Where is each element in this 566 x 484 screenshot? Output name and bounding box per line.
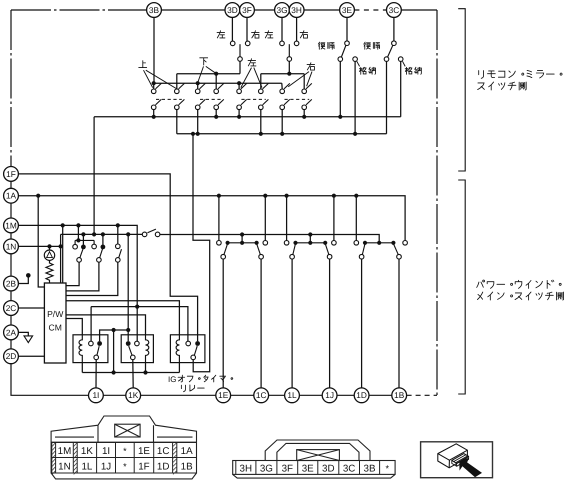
- mechanical link dashed: [200, 98, 221, 100]
- wire 3D to contact: [231, 17, 233, 41]
- wire Lm2 descender to PW CM: [60, 234, 62, 283]
- rocker2 bridge right: [323, 241, 327, 245]
- relay3 common contact: [191, 355, 196, 360]
- wire gridC to PW CM: [66, 262, 118, 295]
- rocker3 right fixed contact: [403, 241, 408, 246]
- wire gridA to PW CM: [66, 262, 79, 285]
- gridB open contact: [92, 244, 97, 249]
- ground triangle 2A: [24, 336, 33, 343]
- connector pin 1B: [392, 388, 407, 403]
- rocker3 right arm: [393, 244, 398, 255]
- wire 3C to right boundary: [401, 9, 437, 11]
- boundary through left connectors to bottom row: [11, 167, 89, 396]
- junction 1A branch: [36, 194, 40, 198]
- contact 3H: [294, 41, 299, 46]
- rocker1 bridge: [228, 242, 257, 244]
- pole1 upper arm: [156, 83, 162, 89]
- connector pin 1M: [4, 218, 19, 233]
- svg-text:3H: 3H: [240, 463, 253, 474]
- connector pin 3D: [225, 3, 240, 18]
- connector pin 1I: [89, 388, 104, 403]
- pole6 lower arm: [263, 99, 269, 105]
- wire relay2 common to 1K: [132, 360, 134, 388]
- label remote control mirror line1: [479, 70, 562, 78]
- label up: [139, 61, 147, 68]
- switch arm 3E: [341, 45, 346, 57]
- mirror switch pole5 lower contact: [237, 105, 242, 110]
- rocker2 bridge center: [308, 241, 312, 245]
- rocker2 left moving contact: [290, 254, 295, 259]
- connector pin 3H: [289, 3, 304, 18]
- relay 3 IG off timer relay: [170, 335, 205, 363]
- junction grid bar: [76, 238, 80, 242]
- label return 2: [364, 42, 380, 49]
- svg-text:3F: 3F: [282, 463, 293, 474]
- relay3 arm: [194, 346, 197, 355]
- bracket power window main switch side: [458, 180, 465, 394]
- wire 2A to ground: [18, 332, 28, 336]
- contact kakunou (retract) 1: [353, 57, 358, 62]
- wire 1N bus: [18, 245, 60, 247]
- pole7 lower contact wire: [281, 110, 283, 134]
- bracket remote mirror switch side: [458, 9, 465, 171]
- wire rocker contact to pin 1D: [361, 259, 363, 388]
- wire bus2 down to IG relay common: [193, 134, 210, 372]
- svg-text:1L: 1L: [81, 461, 92, 472]
- relay1 coil: [79, 335, 82, 363]
- label retract 1: [359, 67, 375, 74]
- svg-text:3B: 3B: [364, 463, 376, 474]
- relay 2 (window down): [121, 335, 153, 363]
- relay1 common contact: [94, 355, 99, 360]
- svg-text:1B: 1B: [394, 390, 405, 400]
- gridA open contact: [73, 244, 78, 249]
- junction 1N Lm2 descender: [59, 244, 63, 248]
- wire rocker contact to pin 1C: [260, 259, 262, 388]
- leader retract 1: [357, 61, 360, 66]
- contact 3G: [280, 41, 285, 46]
- svg-text:2D: 2D: [6, 351, 17, 361]
- rocker1 left fixed contact: [217, 241, 222, 246]
- mirror switch pole4 lower contact: [214, 105, 219, 110]
- wire CM to relay2 coil: [66, 315, 146, 335]
- mirror switch pole8 upper contact: [302, 89, 307, 94]
- junction bus LA2 pivot2: [287, 72, 291, 76]
- relay2 NC contact: [135, 341, 140, 346]
- svg-text:3D: 3D: [322, 463, 335, 474]
- contact 3D (mirror select left): [230, 41, 235, 46]
- contact modoru (return) 1: [338, 57, 343, 62]
- connector pin 3E: [340, 3, 355, 18]
- wire rocker2 left contact to 1A bus: [286, 196, 288, 241]
- junction bus2 retract1: [353, 132, 357, 136]
- connector pin 2C: [4, 301, 19, 316]
- junction 1M to CM: [61, 223, 65, 227]
- label left (3D): [217, 31, 225, 38]
- svg-text:IG: IG: [168, 375, 176, 384]
- connector housing 2 (3B-3H block): [233, 440, 395, 478]
- mirror switch pole7 upper contact: [280, 89, 285, 94]
- wire Lm2 to gridB closed contact: [102, 234, 104, 244]
- pole4 upper arm: [218, 83, 224, 89]
- mechanical link dashed: [156, 98, 182, 100]
- label return 1: [318, 42, 334, 49]
- wire 1F to IG relay NO contact: [18, 174, 197, 341]
- mirror switch pole6 lower contact: [259, 105, 264, 110]
- svg-text:CM: CM: [49, 323, 62, 333]
- label down: [200, 58, 208, 65]
- mirror switch pole6 upper contact: [259, 89, 264, 94]
- gridA closed contact: [81, 245, 86, 250]
- pole7 lower arm: [284, 99, 290, 105]
- relay1 NC contact: [89, 341, 94, 346]
- connector pin 1L: [285, 388, 300, 403]
- mirror switch pole1 upper contact: [151, 89, 156, 94]
- wire 2B stub: [18, 277, 28, 283]
- rocker1 bridge right: [255, 241, 259, 245]
- wire 1M to grid bar: [77, 225, 79, 240]
- rocker1 right fixed contact: [263, 241, 268, 246]
- pole1 lower contact wire: [153, 110, 155, 117]
- svg-text:3E: 3E: [342, 5, 353, 15]
- junction bus1 pole1: [152, 115, 156, 119]
- junction 1A rocker1 left: [217, 194, 221, 198]
- connector pin 1K: [126, 388, 141, 403]
- relay2 NO contact: [126, 341, 131, 346]
- wire relay3 coil to rail: [178, 363, 180, 373]
- mechanical link dashed: [241, 98, 265, 100]
- junction 1N sensor branch: [47, 244, 51, 248]
- rocker3 left moving contact: [359, 254, 364, 259]
- mirror switch pole7 lower contact: [280, 105, 285, 110]
- wire feed to pole2 upper contact: [176, 74, 178, 89]
- gridB arm: [100, 249, 103, 258]
- gridC arm open: [119, 249, 122, 258]
- junction rail tie: [112, 370, 116, 374]
- svg-text:1N: 1N: [6, 241, 17, 251]
- junction bus1 pole4: [214, 115, 218, 119]
- svg-text:1K: 1K: [128, 390, 139, 400]
- rocker2 right fixed contact: [332, 241, 337, 246]
- junction Lm2 gridB: [101, 232, 105, 236]
- connector view icon: [421, 442, 493, 478]
- mirror switch pole2 upper contact: [175, 89, 180, 94]
- svg-text:1N: 1N: [58, 461, 71, 472]
- contact return 2: [384, 57, 389, 62]
- wire 2C to PW CM: [18, 307, 44, 309]
- svg-text:1J: 1J: [101, 461, 111, 472]
- connector pin 1A: [4, 188, 19, 203]
- connector pin 1N: [4, 239, 19, 254]
- rocker2 right arm: [325, 244, 329, 255]
- junction tie line: [112, 328, 116, 332]
- pole2 upper arm: [179, 83, 185, 89]
- boundary chain bottom right: [407, 394, 437, 396]
- pole5 lower arm: [241, 99, 247, 105]
- wire 3F to contact: [246, 17, 248, 41]
- rocker1 left arm: [224, 244, 228, 255]
- label left (3G): [265, 31, 273, 38]
- control module P/W CM: [44, 283, 66, 363]
- wire 1A branch to PW CM: [38, 196, 44, 287]
- junction bus LA pole4: [214, 72, 218, 76]
- pole8 lower arm: [306, 99, 312, 105]
- gridA moving contact: [77, 258, 82, 263]
- wire Lm2 to gridA closed contact: [82, 234, 84, 244]
- bottom row wire segments: [103, 394, 392, 396]
- wire 3E down: [346, 17, 348, 41]
- label power window line1: [477, 280, 562, 288]
- gridA arm: [80, 249, 83, 258]
- junction 1A rocker3 left: [354, 194, 358, 198]
- connector pin 3C: [387, 3, 402, 18]
- wire 3C down: [393, 17, 395, 41]
- junction tie line relay2 feed: [126, 328, 130, 332]
- pole2 lower contact wire: [176, 110, 178, 134]
- relay 1 (window up): [73, 335, 108, 363]
- leader lines left: [241, 68, 262, 88]
- mechanical link dashed: [285, 98, 310, 100]
- wire rocker1 left contact to 1A bus: [218, 196, 220, 241]
- wire tie line down: [113, 330, 115, 373]
- pivot contact 3C: [392, 41, 397, 46]
- svg-text:1F: 1F: [138, 461, 149, 472]
- svg-text:*: *: [386, 463, 390, 473]
- wire rocker2 right contact to 1A bus: [333, 196, 335, 241]
- svg-text:2B: 2B: [6, 278, 17, 288]
- wire bus1 down-left to Lm2: [93, 117, 95, 235]
- svg-text:*: *: [123, 461, 127, 471]
- wire relay1 coil to common rail: [81, 363, 83, 373]
- svg-text:1K: 1K: [81, 446, 93, 457]
- svg-text:3B: 3B: [149, 5, 160, 15]
- wire 3H to contact: [296, 17, 298, 41]
- mirror switch pole1 lower contact: [151, 105, 156, 110]
- PW feed switch contact 2: [155, 232, 160, 237]
- junction bus1 pole5: [237, 115, 241, 119]
- svg-text:1C: 1C: [157, 446, 170, 457]
- PW feed switch arm: [148, 229, 156, 233]
- relay2 arm: [129, 346, 132, 355]
- wire 1A bus: [18, 196, 405, 241]
- junction bus LB pole3: [196, 81, 200, 85]
- leader lines down: [198, 66, 216, 82]
- wire 1M bus to relay2 contact: [18, 225, 137, 341]
- junction 1A rocker2 left: [285, 194, 289, 198]
- svg-text:1L: 1L: [287, 390, 297, 400]
- switch arm 3C: [388, 45, 393, 57]
- junction rail relay2 coil: [143, 370, 147, 374]
- wire gridB to PW CM: [66, 262, 99, 291]
- wire feed to pole6 upper contact: [260, 74, 262, 89]
- gridC upper contact: [116, 244, 121, 249]
- wire feed to pole3 upper contact: [197, 83, 199, 89]
- relay2 coil: [146, 335, 149, 363]
- rocker1 left moving contact: [221, 254, 226, 259]
- junction Lm2 relay2 feed: [126, 232, 130, 236]
- rocker2 right moving contact: [327, 254, 332, 259]
- wire feed to pole4 upper contact: [215, 74, 217, 89]
- wire rocker contact to pin 1L: [291, 259, 293, 388]
- wire feed to pole5 upper contact: [238, 83, 240, 89]
- junction bus1 pole8: [302, 115, 306, 119]
- svg-text:1F: 1F: [6, 169, 16, 179]
- junction 1A rocker1 right: [263, 194, 267, 198]
- pivot contact 3E: [345, 41, 350, 46]
- wire CM to relay1 coil: [66, 319, 82, 335]
- svg-text:2A: 2A: [6, 327, 17, 337]
- svg-text:1M: 1M: [58, 446, 72, 457]
- wire CM to relay3 coil: [66, 301, 179, 335]
- resistor R: [46, 263, 53, 283]
- connector pin 1E: [216, 388, 231, 403]
- wire 2D to PW CM: [18, 355, 44, 357]
- junction bus LB pole5: [237, 81, 241, 85]
- svg-text:1I: 1I: [92, 390, 99, 400]
- svg-text:1J: 1J: [325, 390, 334, 400]
- wire pivot1 to bus LA: [239, 61, 241, 73]
- wire 3B down to bus: [153, 17, 155, 83]
- pole2 lower arm: [179, 99, 185, 105]
- svg-text:3C: 3C: [343, 463, 356, 474]
- rocker1 bridge center: [240, 241, 244, 245]
- leader retract 2: [403, 61, 406, 66]
- PW feed switch contact 1: [142, 232, 147, 237]
- rocker1 right arm: [257, 244, 261, 255]
- label right (poles 7-8): [307, 63, 315, 70]
- rocker1 bridge left: [226, 241, 230, 245]
- pole7 upper arm: [284, 83, 290, 89]
- leader lines up: [144, 70, 178, 89]
- svg-text:1D: 1D: [356, 390, 367, 400]
- rocker3 right moving contact: [397, 254, 402, 259]
- connector pin 2B: [4, 276, 19, 291]
- relay3 NO contact: [195, 341, 200, 346]
- junction bus2 pole3: [196, 132, 200, 136]
- wire Lm2 to relay2 NO contact: [127, 234, 129, 341]
- pivot contact 3G/3H: [287, 57, 292, 62]
- rocker2 left arm: [293, 244, 296, 255]
- label remote control mirror line2: [478, 82, 527, 90]
- wire 1M descender to PW CM: [62, 225, 64, 283]
- rocker3 bridge: [365, 242, 393, 244]
- pole4 lower arm: [218, 99, 224, 105]
- contact retract 2: [398, 57, 403, 62]
- junction bus LB 3B: [152, 81, 156, 85]
- wire feed to pole1 upper contact: [153, 83, 155, 89]
- svg-text:2C: 2C: [6, 303, 17, 313]
- mirror switch pole3 lower contact: [195, 105, 200, 110]
- rocker1 right moving contact: [259, 254, 264, 259]
- label retract 2: [405, 67, 421, 74]
- mirror bus1: [94, 116, 401, 118]
- gridB moving contact: [97, 258, 102, 263]
- connector pin 1F: [4, 167, 19, 182]
- wire 3G to contact: [281, 17, 283, 41]
- pole4 lower contact wire: [215, 110, 217, 117]
- svg-text:3G: 3G: [276, 5, 287, 15]
- wire 1M to gridC contact: [117, 225, 119, 244]
- svg-text:1M: 1M: [5, 220, 17, 230]
- stub rocker1 center: [241, 235, 243, 243]
- wire rocker contact to pin 1B: [398, 259, 400, 388]
- connector pin 2A: [4, 325, 19, 340]
- rocker3 left fixed contact: [354, 241, 359, 246]
- connector pin 2D: [4, 349, 19, 364]
- mirror switch pole5 upper contact: [237, 89, 242, 94]
- gridC lower contact: [116, 258, 121, 263]
- mirror bus2: [177, 133, 387, 135]
- bus relay NC contacts: [91, 307, 188, 342]
- bus LA2 poles6-8 and pivot2: [261, 73, 304, 75]
- mirror switch pole2 lower contact: [175, 105, 180, 110]
- junction Lm2 bus1 descender: [92, 232, 96, 236]
- wire pivot2 to bus LA2: [288, 61, 290, 73]
- bus LB from 3B: [154, 82, 282, 84]
- junction 1M to gridC: [116, 223, 120, 227]
- svg-text:1E: 1E: [218, 390, 229, 400]
- svg-text:3C: 3C: [389, 5, 400, 15]
- rocker2 bridge: [296, 242, 326, 244]
- changeover arm 3D/3F: [239, 44, 241, 57]
- mirror switch pole8 lower contact: [302, 105, 307, 110]
- junction bus2 pole6: [259, 132, 263, 136]
- wire rocker contact to pin 1E: [222, 259, 224, 388]
- relay2 common contact: [131, 355, 136, 360]
- wire feed to pole7 upper contact: [281, 83, 283, 89]
- junction bus PW rocker2: [308, 232, 312, 236]
- junction bus1 return1: [338, 115, 342, 119]
- stub rocker2 center: [309, 235, 311, 243]
- label power window line2: [477, 292, 563, 300]
- boundary chain left vertical: [10, 10, 12, 167]
- pole5 lower contact wire: [238, 110, 240, 117]
- wire rocker1 right contact to 1A bus: [264, 196, 266, 241]
- wire relay1 common to 1I: [95, 360, 97, 388]
- svg-text:3G: 3G: [260, 463, 273, 474]
- junction bus2 descender: [191, 132, 195, 136]
- rocker3 left arm: [362, 244, 365, 255]
- bus Lm2: [61, 233, 143, 235]
- pole8 lower contact wire: [303, 110, 305, 117]
- wire rocker3 left contact to 1A bus: [355, 196, 357, 241]
- junction bus PW rocker1: [240, 232, 244, 236]
- svg-text:1C: 1C: [256, 390, 267, 400]
- pole1 lower arm: [156, 99, 162, 105]
- connector housing 1 (1M-1B block): [51, 416, 196, 479]
- svg-text:3H: 3H: [291, 5, 302, 15]
- label right (3F): [252, 31, 260, 38]
- wire rocker contact to pin 1J: [329, 259, 331, 388]
- junction bus2 pole7: [280, 132, 284, 136]
- connector pin 3B: [147, 3, 162, 18]
- leader lines right: [288, 72, 312, 87]
- relay1 arm: [97, 346, 99, 355]
- contact 3F (mirror select right): [245, 41, 250, 46]
- mirror switch pole3 upper contact: [195, 89, 200, 94]
- bus PW switch feed: [160, 235, 379, 243]
- wire relay1 NO to tie line: [100, 330, 129, 341]
- wire to sensor: [49, 246, 51, 250]
- relay1 NO contact: [97, 341, 102, 346]
- changeover arm 3G/3H: [288, 44, 290, 57]
- boundary chain top-left: [11, 9, 147, 11]
- pole6 lower contact wire: [260, 110, 262, 134]
- grid feed bar: [75, 240, 94, 244]
- relay3 NC contact: [186, 341, 191, 346]
- svg-text:1I: 1I: [102, 446, 110, 457]
- rocker3 bridge center: [377, 241, 381, 245]
